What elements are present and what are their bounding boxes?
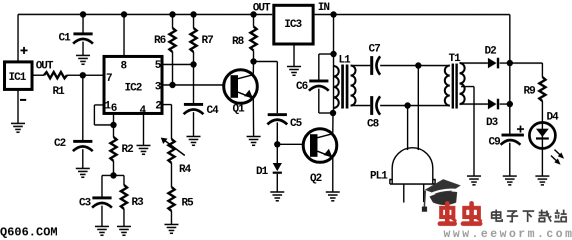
- svg-text:Q606.COM: Q606.COM: [0, 225, 58, 239]
- svg-text:IC2: IC2: [125, 82, 142, 94]
- svg-text:D1: D1: [256, 166, 269, 178]
- svg-text:R5: R5: [181, 197, 194, 209]
- svg-text:C2: C2: [54, 138, 66, 150]
- svg-text:Q1: Q1: [233, 103, 246, 115]
- svg-text:2: 2: [155, 100, 161, 112]
- svg-text:R3: R3: [131, 197, 144, 209]
- svg-text:R6: R6: [154, 35, 166, 47]
- svg-text:R7: R7: [202, 35, 214, 47]
- svg-text:R8: R8: [232, 36, 245, 48]
- svg-text:C9: C9: [488, 137, 500, 149]
- svg-text:C1: C1: [59, 32, 72, 44]
- svg-text:PL1: PL1: [370, 171, 388, 183]
- svg-text:7: 7: [106, 73, 112, 85]
- svg-text:D4: D4: [546, 112, 559, 124]
- svg-text:D3: D3: [486, 117, 499, 129]
- svg-text:Q2: Q2: [310, 173, 322, 185]
- svg-text:D2: D2: [485, 46, 497, 58]
- svg-text:R4: R4: [179, 164, 192, 176]
- svg-text:C6: C6: [296, 81, 308, 93]
- svg-text:C5: C5: [290, 118, 303, 130]
- svg-text:www.eeworm.com: www.eeworm.com: [443, 228, 572, 239]
- svg-text:C8: C8: [367, 119, 380, 131]
- svg-text:6: 6: [111, 103, 117, 115]
- svg-text:OUT: OUT: [36, 60, 54, 72]
- svg-text:C7: C7: [369, 44, 381, 56]
- svg-text:IN: IN: [318, 2, 330, 14]
- svg-text:C4: C4: [207, 105, 220, 117]
- svg-text:R2: R2: [121, 144, 133, 156]
- svg-text:T1: T1: [449, 53, 462, 65]
- svg-text:L1: L1: [339, 55, 352, 67]
- svg-text:IC3: IC3: [284, 19, 302, 31]
- svg-text:IC1: IC1: [9, 72, 27, 84]
- svg-text:OUT: OUT: [253, 2, 271, 14]
- svg-text:C3: C3: [79, 197, 92, 209]
- svg-text:R9: R9: [524, 86, 536, 98]
- svg-text:R1: R1: [53, 86, 66, 98]
